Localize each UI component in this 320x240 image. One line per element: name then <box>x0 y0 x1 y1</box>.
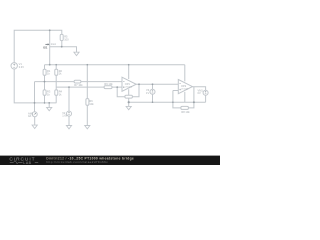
svg-text:R7 10k: R7 10k <box>74 83 83 87</box>
svg-text:IS1: IS1 <box>43 46 48 50</box>
svg-text:R8 10k: R8 10k <box>181 110 190 114</box>
svg-text:10k: 10k <box>89 102 94 106</box>
svg-text:http://circuitlab.com/c/atae2d: http://circuitlab.com/c/atae2d79n66x <box>46 160 108 164</box>
svg-text:1mA: 1mA <box>51 42 57 46</box>
svg-text:OP2: OP2 <box>181 84 187 88</box>
svg-text:LAB: LAB <box>23 161 31 165</box>
svg-text:100: 100 <box>64 37 69 41</box>
svg-text:0A: 0A <box>28 114 31 118</box>
svg-text:LT1006: LT1006 <box>125 86 133 88</box>
svg-text:0V: 0V <box>198 91 201 95</box>
svg-text:1.6V: 1.6V <box>62 114 68 118</box>
svg-text:3.3V: 3.3V <box>19 65 25 69</box>
svg-text:1V: 1V <box>146 91 149 95</box>
svg-text:R9 10k: R9 10k <box>104 82 113 86</box>
svg-text:OP1: OP1 <box>125 82 131 86</box>
svg-text:LT1006: LT1006 <box>181 88 189 90</box>
